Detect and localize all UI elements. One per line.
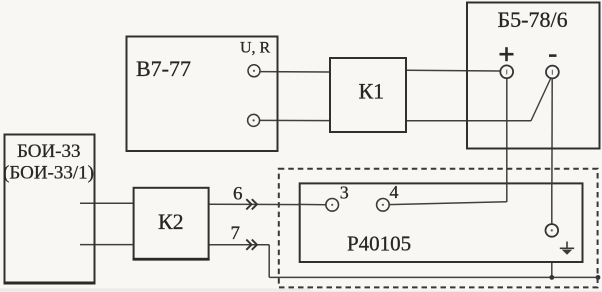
wire minus terminal down to ground terminal [551, 79, 553, 225]
minus terminal circle [546, 66, 559, 79]
box K1 [330, 58, 406, 132]
wire 7: K2 right horizontal [209, 244, 270, 246]
wire plus terminal down into R40105 [506, 78, 508, 202]
svg-text:U, R: U, R [240, 39, 271, 56]
svg-text:(БОИ-33/1): (БОИ-33/1) [3, 163, 94, 184]
svg-text:БОИ-33: БОИ-33 [17, 141, 81, 162]
svg-text:4: 4 [390, 182, 399, 202]
svg-text:Р40105: Р40105 [347, 232, 411, 256]
wire V7-77 bottom terminal to K1 left [260, 119, 330, 121]
re-draw wire from terminal 4 inside box [389, 202, 507, 205]
plus sign [500, 53, 514, 56]
wire 7 vertical drop [268, 245, 270, 278]
svg-text:К1: К1 [359, 79, 385, 104]
box BOI-33 [5, 135, 95, 283]
wire K1 right to plus terminal of B5-78/6 [406, 69, 500, 72]
chevrons on wire 6 [246, 199, 251, 209]
junction dot at bus right end [596, 275, 601, 280]
wire BOI-33 upper output to K2 [80, 202, 134, 204]
box V7-77 [127, 37, 278, 152]
scan artifact bottom strip [0, 289, 310, 292]
box R40105 [300, 183, 583, 262]
svg-text:7: 7 [231, 223, 241, 244]
wire 6: K2 right to terminal 3 [210, 203, 326, 206]
re-draw wire 6 tail inside box [298, 203, 326, 205]
box B5-78/6 [467, 3, 600, 149]
re-draw minus drop inside box [551, 183, 553, 224]
dashed enclosure box [279, 169, 598, 288]
wire bottom bus [269, 276, 598, 278]
svg-text:В7-77: В7-77 [136, 56, 191, 81]
wire diagonal up to minus terminal [531, 79, 551, 121]
box K2 [134, 188, 209, 259]
svg-text:6: 6 [233, 183, 243, 204]
wire K1 right toward minus terminal [406, 120, 531, 122]
svg-text:Б5-78/6: Б5-78/6 [498, 7, 568, 32]
terminal circle U bottom [248, 114, 260, 126]
svg-text:К2: К2 [158, 209, 184, 234]
chevrons on wire 7 [246, 240, 251, 250]
wire BOI-33 lower output to K2 [80, 244, 134, 246]
svg-text:3: 3 [340, 183, 349, 203]
thick bottom edge of K2 [133, 258, 210, 261]
terminal circle U top [248, 65, 260, 77]
plus terminal circle [500, 65, 513, 78]
re-draw plus drop inside box [506, 183, 508, 202]
wire from terminal 4 right to plus drop [389, 202, 507, 205]
terminal circle 4 [377, 199, 390, 212]
thick bottom edge of BOI-33 [4, 282, 96, 285]
ground terminal circle [546, 224, 559, 237]
ground symbol [560, 242, 574, 249]
wire V7-77 top terminal to K1 left [260, 71, 330, 73]
terminal circle 3 [326, 199, 339, 212]
junction dot at ground drop on bus [549, 275, 554, 280]
minus sign [549, 54, 557, 57]
wire ground terminal down to bottom bus [551, 237, 553, 278]
